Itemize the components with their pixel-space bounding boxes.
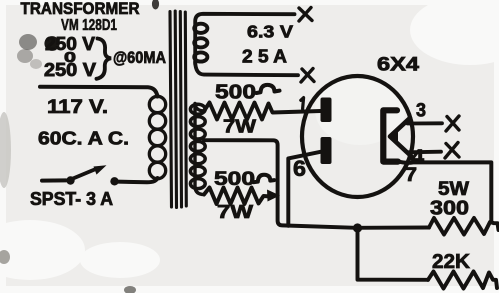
svg-text:300: 300 <box>430 198 469 220</box>
svg-text:7W: 7W <box>223 117 256 137</box>
svg-text:6.3 V: 6.3 V <box>247 22 293 42</box>
svg-text:VM 128D1: VM 128D1 <box>61 17 117 34</box>
svg-text:6: 6 <box>293 156 306 181</box>
svg-text:22K: 22K <box>432 251 471 273</box>
svg-text:60C. A C.: 60C. A C. <box>38 128 129 149</box>
svg-text:500: 500 <box>215 82 256 104</box>
svg-text:@60MA: @60MA <box>113 48 166 67</box>
svg-text:SPST- 3 A: SPST- 3 A <box>30 189 113 209</box>
svg-text:500: 500 <box>214 169 255 190</box>
svg-text:2 5 A: 2 5 A <box>242 47 287 67</box>
svg-text:7: 7 <box>405 165 417 186</box>
svg-text:7W: 7W <box>217 202 253 222</box>
svg-text:250 V: 250 V <box>44 60 96 80</box>
svg-text:TRANSFORMER: TRANSFORMER <box>21 0 140 18</box>
svg-text:3: 3 <box>416 101 426 122</box>
svg-text:117 V.: 117 V. <box>47 97 108 118</box>
svg-text:6X4: 6X4 <box>377 55 420 76</box>
